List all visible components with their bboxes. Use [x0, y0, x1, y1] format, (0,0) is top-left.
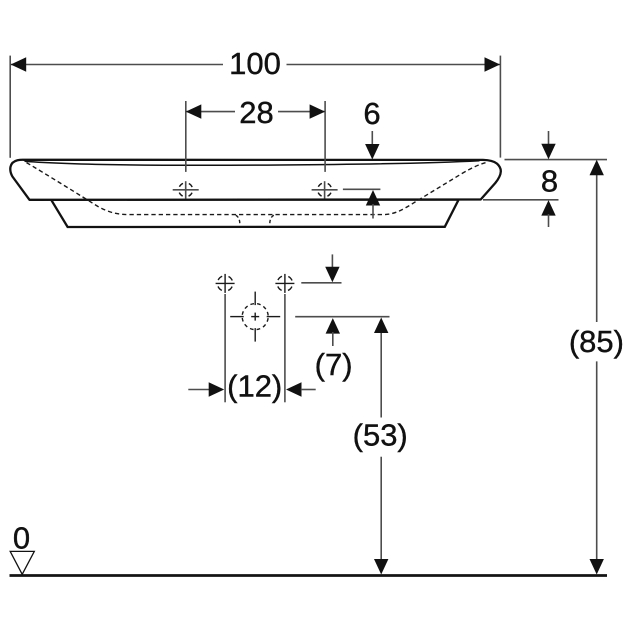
fixing hole right	[275, 274, 294, 293]
svg-text:(7): (7)	[315, 347, 353, 382]
svg-text:0: 0	[13, 520, 30, 555]
svg-text:(12): (12)	[227, 368, 282, 403]
dim (85)	[569, 160, 624, 575]
svg-text:(85): (85)	[569, 324, 624, 359]
hidden drain mark right	[270, 215, 274, 223]
basin inner rim line	[25, 161, 480, 166]
svg-text:8: 8	[541, 164, 558, 199]
dim (53)	[353, 318, 408, 575]
datum 0	[10, 520, 34, 574]
dim 100	[10, 46, 500, 158]
fixing hole left	[216, 274, 235, 293]
svg-text:6: 6	[363, 96, 380, 131]
dim (7)	[295, 254, 389, 381]
dim (12)	[188, 294, 315, 403]
dim 6	[343, 96, 381, 219]
tap hole right	[312, 181, 338, 198]
drain hole	[230, 292, 280, 342]
svg-text:100: 100	[229, 46, 281, 81]
basin lower base (trapezoid)	[51, 200, 459, 228]
svg-text:28: 28	[239, 95, 273, 130]
floor line	[10, 574, 608, 577]
tap hole left	[173, 181, 199, 198]
basin upper body (rim)	[10, 160, 501, 200]
dim 8	[483, 131, 607, 227]
dim 28	[186, 95, 325, 172]
hidden drain mark left	[236, 215, 240, 223]
hidden bowl contour (dashed)	[27, 162, 487, 214]
svg-text:(53): (53)	[353, 418, 408, 453]
